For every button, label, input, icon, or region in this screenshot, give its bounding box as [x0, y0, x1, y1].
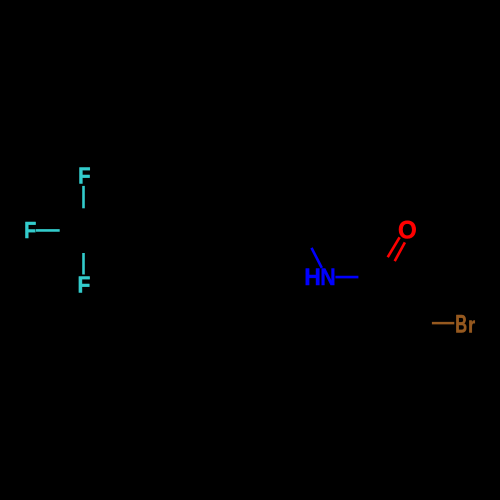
- svg-text:F: F: [78, 272, 91, 298]
- svg-text:r: r: [468, 314, 475, 338]
- svg-text:H: H: [304, 264, 321, 290]
- svg-text:N: N: [320, 264, 335, 290]
- svg-text:O: O: [398, 217, 417, 244]
- svg-text:B: B: [455, 311, 467, 338]
- svg-text:F: F: [78, 162, 90, 188]
- svg-text:F: F: [24, 217, 36, 244]
